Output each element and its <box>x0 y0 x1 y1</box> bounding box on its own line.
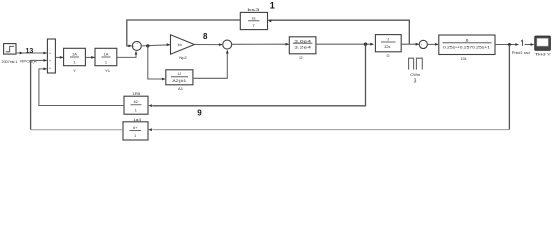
svg-text:+: + <box>133 45 135 49</box>
wire gain to sum2 <box>194 43 222 46</box>
svg-text:1: 1 <box>270 0 275 10</box>
svg-text:1: 1 <box>135 108 137 112</box>
wire tap to ks3 (top feedback right segment) <box>268 19 410 44</box>
svg-text:3.0e4: 3.0e4 <box>294 39 311 43</box>
feedback block A (speed path) <box>124 96 148 114</box>
svg-text:1a4: 1a4 <box>133 118 141 122</box>
svg-text:J: J <box>387 38 389 42</box>
node junction after sum1 <box>146 44 149 47</box>
wire TF1 to TF2 <box>85 56 94 59</box>
svg-text:ks: ks <box>252 16 256 20</box>
step source block <box>4 44 16 55</box>
svg-text:3: 3 <box>414 78 417 84</box>
plant block 0.25s2 <box>439 35 495 55</box>
svg-text:1R5: 1R5 <box>132 92 140 96</box>
transfer fcn block TF1 <box>64 48 86 65</box>
wire mux to block TF1 <box>55 56 63 59</box>
wire TF2 to sum1 bottom <box>117 51 138 58</box>
node junction output tap <box>508 43 511 46</box>
wire plant to probe <box>495 43 519 46</box>
svg-text:Np2: Np2 <box>179 55 187 60</box>
svg-text:9: 9 <box>197 109 202 118</box>
current loop block 3.0e4 <box>289 37 316 54</box>
ks3 label above <box>247 7 260 12</box>
svg-text:1J: 1J <box>177 72 181 76</box>
TF1 label Y <box>73 68 76 73</box>
wire sum2 to current block <box>232 43 289 46</box>
annotation 8 <box>203 32 208 41</box>
mux block <box>47 39 55 73</box>
wire feedback B block to mux input2 <box>31 59 123 130</box>
svg-text:6+: 6+ <box>133 126 138 130</box>
wire probe to scope <box>525 43 535 46</box>
svg-text:+: + <box>420 43 422 47</box>
svg-text:2007пм 1: 2007пм 1 <box>2 59 19 64</box>
probe label <box>512 51 530 55</box>
scope block <box>535 36 551 50</box>
sum junction S1 <box>132 41 141 50</box>
current block label i2 <box>299 55 303 60</box>
wire sum1 to gain <box>141 43 170 46</box>
pulse source TL <box>409 58 423 69</box>
feedback block B label <box>133 118 141 122</box>
wire feedback B tap down and left <box>148 45 509 132</box>
wire load sum to plant block <box>427 43 438 46</box>
svg-text:3.2e4: 3.2e4 <box>294 46 311 50</box>
svg-text:kn: kn <box>178 42 182 47</box>
feedback block ks3 (top) <box>240 12 267 29</box>
node junction speed tap <box>364 43 367 46</box>
wire integrator to sum2 bottom <box>193 50 229 78</box>
svg-text:+: + <box>136 42 138 46</box>
svg-text:+: + <box>49 59 51 63</box>
svg-text:13: 13 <box>26 48 34 55</box>
annotation 9 <box>197 109 202 118</box>
svg-text:+: + <box>49 52 51 56</box>
wire current block to Js block <box>316 43 374 46</box>
annotation 3 <box>414 78 417 84</box>
annotation 1 <box>270 0 275 10</box>
TF2 label Y1 <box>105 68 111 73</box>
svg-text:0.25s²+0.2570.25s+1: 0.25s²+0.2570.25s+1 <box>443 45 490 49</box>
node label RPCRLR <box>20 59 37 64</box>
plant label 10L <box>460 56 467 61</box>
wire step to mux <box>16 52 47 55</box>
transfer fcn block TF2 <box>95 48 117 65</box>
svg-text:Y1: Y1 <box>105 68 111 73</box>
svg-text:1A: 1A <box>72 52 77 57</box>
integrator block ki <box>166 70 193 85</box>
pulse label CWm <box>410 72 421 77</box>
svg-text:.B: .B <box>465 37 469 42</box>
sum junction S2 <box>223 40 232 49</box>
scope label Tind Y <box>535 52 552 56</box>
svg-text:1A: 1A <box>104 52 109 57</box>
svg-text:+: + <box>49 66 51 70</box>
annotation 13 <box>26 48 34 55</box>
svg-text:Tind Y: Tind Y <box>535 52 552 56</box>
svg-text:A2(#1: A2(#1 <box>172 79 186 83</box>
1/Js label G <box>386 53 389 58</box>
probe element <box>521 40 522 46</box>
svg-text:A1: A1 <box>178 86 184 91</box>
wire feedback A tap down and left <box>148 44 365 107</box>
step source label <box>2 59 19 64</box>
integrator label A1 <box>178 86 184 91</box>
feedback block B (outer path) <box>123 122 148 140</box>
svg-text:Y: Y <box>73 68 76 73</box>
svg-text:ks3: ks3 <box>247 7 260 12</box>
feedback block A label <box>132 92 140 96</box>
svg-text:32s: 32s <box>384 45 390 49</box>
svg-text:10L: 10L <box>460 56 467 61</box>
gain triangle kp <box>171 35 195 54</box>
wire junction down to integrator <box>148 46 166 81</box>
wire feedback A block to mux input3 <box>39 68 124 106</box>
gain label Np2 <box>179 55 187 60</box>
svg-text:Prbd1 rad: Prbd1 rad <box>512 51 530 55</box>
load sum junction S3 <box>419 40 427 48</box>
svg-text:G: G <box>386 53 389 58</box>
wire Js block to load sum <box>401 43 419 46</box>
mechanical block 1/Js <box>375 35 401 52</box>
svg-text:CWm: CWm <box>410 72 421 77</box>
svg-text:62: 62 <box>134 100 138 104</box>
wire top feedback into sum1 <box>127 20 241 47</box>
svg-text:RPCR(R: RPCR(R <box>20 59 37 64</box>
svg-text:8: 8 <box>203 32 208 41</box>
svg-text:1: 1 <box>134 134 136 138</box>
